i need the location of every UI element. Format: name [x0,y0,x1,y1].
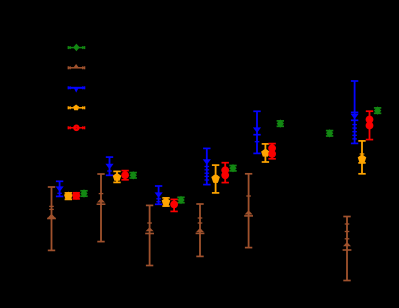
orange point E (pentagon) [261,143,270,163]
brown point B (triangle-up, large error) [97,173,106,242]
red point D (circle) [221,162,229,184]
blue point E (triangle-down) [253,110,261,154]
blue point D (triangle-down) [203,148,211,186]
legend entry blue (triangle-down): errorbar handle [68,86,86,92]
red point E (circle) [268,143,276,160]
green point E (diamond, small error) [277,119,284,127]
blue point G (triangle-down) [351,80,359,144]
green point A (diamond, small error) [80,189,87,197]
green point B (diamond, small error) [130,171,137,179]
brown point A (triangle-up, large error) [47,186,56,251]
blue point A (triangle-down) [56,180,64,197]
red point B (circle) [121,170,129,181]
blue point C (triangle-down) [155,185,163,205]
orange point G (pentagon) [358,140,367,175]
green point G (diamond, small error) [374,106,381,114]
legend entry green (diamond): errorbar handle [68,44,86,52]
brown point D (triangle-up, large error) [196,203,205,257]
red point C (circle) [170,199,178,213]
orange point A (pentagon) [64,192,73,201]
red point A (circle) [72,192,80,200]
blue point B (triangle-down) [105,156,113,176]
legend entry orange (pentagon): errorbar handle [68,105,86,111]
brown point G (triangle-up, large error) [343,216,352,282]
green point F (diamond, small error) [326,129,333,137]
brown point E (triangle-up, large error) [244,173,253,249]
orange point C (pentagon) [162,197,171,207]
brown point C (triangle-up, large error) [145,205,154,267]
orange point B (pentagon) [113,171,122,184]
orange point D (pentagon) [211,164,220,194]
red point G (circle) [366,110,374,140]
legend entry red (open circle): errorbar handle [68,126,86,130]
green point C (diamond, small error) [177,196,184,204]
green point D (diamond, small error) [229,164,236,172]
legend entry brown (triangle-up): errorbar handle [68,64,86,69]
